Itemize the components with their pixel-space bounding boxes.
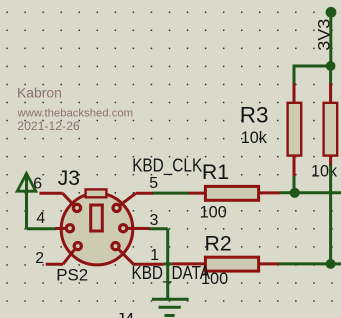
svg-text:1: 1 — [150, 247, 159, 264]
svg-text:2: 2 — [35, 250, 44, 267]
wire R2 row green right — [279, 262, 341, 265]
wire power to pin4 — [27, 227, 57, 230]
junction at 3V3 branch — [326, 61, 336, 71]
svg-text:5: 5 — [149, 175, 158, 192]
svg-text:R3: R3 — [240, 103, 269, 128]
svg-text:10k: 10k — [311, 162, 338, 180]
svg-text:www.thebackshed.com: www.thebackshed.com — [17, 108, 134, 120]
wire R3 bottom to junction — [293, 176, 296, 193]
ground symbol — [152, 299, 189, 315]
svg-text:R1: R1 — [202, 160, 229, 184]
svg-text:KBD_DATA: KBD_DATA — [132, 263, 211, 284]
wire pin3 to ground — [149, 229, 168, 300]
pin circle 2 — [74, 243, 81, 250]
pin 1 wire — [119, 250, 164, 265]
resistor R1 — [188, 186, 280, 200]
svg-text:R2: R2 — [205, 231, 232, 255]
pin 6 wire — [40, 193, 75, 205]
wire 3V3 horizontal to R3 — [293, 65, 331, 68]
pin circle 3 — [120, 225, 127, 232]
svg-text:KBD_CLK: KBD_CLK — [132, 156, 202, 177]
connector J3 body — [61, 189, 133, 265]
wire R4 bottom to junction — [329, 165, 332, 264]
resistor R4 10k — [324, 83, 338, 166]
pin 4 wire — [55, 227, 66, 230]
resistor R2 — [172, 257, 279, 271]
svg-text:100: 100 — [200, 203, 227, 221]
svg-text:PS2: PS2 — [56, 266, 88, 285]
svg-text:2021-12-26: 2021-12-26 — [17, 119, 80, 133]
wire R1 row green right — [279, 191, 341, 194]
svg-text:10k: 10k — [241, 129, 268, 147]
wire KBD_CLK green — [152, 192, 189, 195]
power terminal 3V3 — [326, 7, 337, 66]
pin 3 wire — [128, 227, 150, 230]
power arrow terminal — [17, 174, 36, 229]
pin circle 4 — [66, 225, 73, 232]
svg-text:Kabron: Kabron — [17, 85, 62, 101]
svg-text:3: 3 — [150, 212, 159, 229]
junction R1/R3 — [290, 188, 300, 198]
pin 5 wire — [120, 193, 153, 205]
svg-text:J3: J3 — [58, 167, 80, 190]
pin circle 1 — [112, 243, 119, 250]
pin circle 6 — [73, 204, 80, 211]
svg-text:4: 4 — [36, 210, 45, 227]
wire down to R3 top — [293, 65, 296, 85]
resistor R3 — [288, 83, 302, 177]
wire down to R4 top — [329, 66, 332, 85]
svg-text:J4: J4 — [116, 310, 134, 318]
wire pin1 green crossing — [164, 262, 172, 265]
junction R2/R4 — [326, 259, 336, 269]
pin 2 wire — [46, 250, 75, 265]
pin circle 5 — [113, 204, 120, 211]
svg-text:3V3: 3V3 — [315, 19, 333, 51]
svg-text:6: 6 — [33, 175, 42, 192]
